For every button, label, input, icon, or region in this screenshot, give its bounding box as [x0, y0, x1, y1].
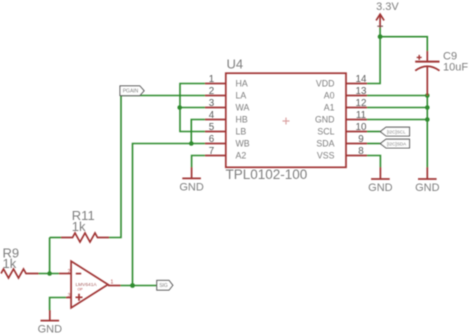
svg-text:2: 2 [209, 86, 214, 97]
svg-text:SIG: SIG [159, 283, 168, 289]
svg-text:6: 6 [209, 134, 215, 145]
svg-text:1: 1 [111, 280, 114, 286]
svg-text:10: 10 [356, 122, 367, 133]
svg-text:[I2C]SCL: [I2C]SCL [387, 129, 406, 134]
svg-text:VSS: VSS [317, 151, 335, 161]
svg-text:WB: WB [236, 139, 250, 149]
svg-text:PGAIN: PGAIN [123, 89, 139, 95]
svg-text:2: 2 [68, 269, 71, 275]
svg-text:12: 12 [356, 98, 367, 109]
svg-text:13: 13 [356, 86, 367, 97]
svg-text:GND: GND [415, 182, 440, 194]
svg-text:GND: GND [179, 182, 204, 194]
svg-text:8: 8 [358, 146, 364, 157]
svg-text:GND: GND [368, 182, 393, 194]
svg-text:9: 9 [358, 134, 363, 145]
svg-text:LA: LA [236, 91, 247, 101]
svg-text:A2: A2 [236, 151, 247, 161]
svg-text:1: 1 [209, 74, 214, 85]
svg-text:GND: GND [315, 115, 335, 125]
svg-text:OP: OP [78, 287, 84, 291]
svg-text:LB: LB [236, 127, 247, 137]
svg-text:A1: A1 [324, 103, 335, 113]
svg-text:HB: HB [236, 115, 248, 125]
svg-text:TPL0102-100: TPL0102-100 [226, 167, 308, 182]
svg-text:5: 5 [209, 122, 215, 133]
svg-text:GND: GND [38, 324, 63, 335]
svg-text:U4: U4 [227, 57, 244, 72]
svg-text:14: 14 [356, 74, 367, 85]
svg-text:SCL: SCL [317, 127, 334, 137]
svg-text:3: 3 [209, 98, 215, 109]
svg-text:10uF: 10uF [443, 62, 468, 74]
svg-text:3: 3 [68, 293, 71, 299]
svg-text:WA: WA [236, 103, 250, 113]
svg-text:[I2C]SDA: [I2C]SDA [387, 141, 407, 146]
svg-text:1k: 1k [72, 219, 86, 234]
svg-text:7: 7 [209, 146, 214, 157]
svg-text:VDD: VDD [316, 79, 335, 89]
svg-text:A0: A0 [324, 91, 335, 101]
svg-text:3.3V: 3.3V [376, 1, 399, 13]
svg-text:HA: HA [236, 79, 248, 89]
svg-text:11: 11 [356, 110, 366, 121]
svg-text:1k: 1k [3, 256, 17, 271]
svg-text:SDA: SDA [316, 139, 334, 149]
svg-text:4: 4 [209, 110, 215, 121]
